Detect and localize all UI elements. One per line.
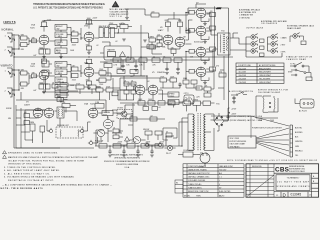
signal wire to phase inverter [118,33,148,38]
inputs label [2,21,16,32]
svg-text:MASTER VOL: MASTER VOL [99,25,110,28]
screen resistor V10 [206,67,215,71]
svg-text:.1: .1 [147,43,148,45]
svg-text:RED-VIO/WHT: RED-VIO/WHT [259,72,272,74]
svg-text:470: 470 [171,47,174,49]
svg-text:12AT7: 12AT7 [24,103,31,106]
svg-text:V1B: V1B [84,26,89,28]
svg-text:COMPOSITE PCB P/N: COMPOSITE PCB P/N [188,166,207,168]
vibrato channel long wire to mixer [111,76,147,100]
coupling caps to power tubes [185,20,192,44]
cathode network V2B [86,77,92,87]
reverb cables [47,111,91,131]
svg-text:200-210V: 200-210V [239,75,247,77]
svg-text:C 1: C 1 [219,177,222,179]
export plug connector [295,99,314,113]
notes list [1,151,113,191]
tremolo lower chain wires [112,99,180,140]
bright switch normal [55,25,67,31]
rail decoupling R102 [139,58,147,67]
screen resistor V8 [206,26,215,30]
svg-text:RED/BLU: RED/BLU [295,150,303,152]
svg-text:A GROUND SWITCH: A GROUND SWITCH [229,90,254,93]
svg-text:SWITCH: SWITCH [110,16,123,18]
reverb mix resistors [94,69,111,86]
output transformer T50 [218,31,231,55]
svg-text:.047: .047 [33,90,36,92]
svg-text:COILS AND CHOKES: COILS AND CHOKES [188,179,206,182]
screen resistor box top [151,11,159,17]
svg-text:470: 470 [216,66,219,68]
ground cathode V1B [87,52,91,54]
rev cells left of parts table [175,180,183,193]
svg-text:V2A: V2A [31,62,36,65]
svg-text:TUBES 7025 ALL: TUBES 7025 ALL [188,183,202,186]
PI labels extra [162,37,219,99]
PS filter cap 4 [150,146,154,157]
svg-text:C STANDBY SW: C STANDBY SW [239,14,253,17]
heading output jacks [246,27,264,30]
svg-text:6. VOLTAGES SHOULD BE READING: 6. VOLTAGES SHOULD BE READING ±20% WITH … [4,176,75,179]
svg-text:TREM: TREM [29,122,35,124]
speaker jack 2A [251,41,264,50]
rail boxes right mid [163,56,182,74]
svg-text:R1: R1 [176,182,178,184]
svg-text:YEL-VIO/WHT: YEL-VIO/WHT [259,79,271,81]
svg-text:.01: .01 [131,80,133,82]
svg-text:3. TONES ON THE CONTROLS INDIC: 3. TONES ON THE CONTROLS INDICATED. [4,166,56,169]
trem rail extra [160,76,182,88]
svg-text:FULLERTON CALIF: FULLERTON CALIF [289,170,305,173]
svg-text:LEAD AND FUNC: LEAD AND FUNC [219,165,234,168]
svg-text:220: 220 [151,11,154,13]
reverb recovery V4B [103,117,115,133]
cathode network V1A [39,45,50,56]
master volume sliders [94,25,118,38]
svg-text:.01: .01 [113,127,115,129]
svg-text:CR SW: CR SW [117,108,123,110]
dropping resistor PS1 [99,144,107,148]
svg-text:FENDER MUSICAL INSTRUMENTS: FENDER MUSICAL INSTRUMENTS [111,153,143,156]
ground marks mid [122,39,147,42]
B+ output arrows [228,108,237,115]
svg-text:IN LAST POSITION. PUSH IN FOR: IN LAST POSITION. PUSH IN FOR FULL SOUND… [8,159,85,162]
svg-text:TO P.T.: TO P.T. [290,63,296,65]
volume pot normal [49,30,67,41]
svg-text:CAPACITORS, PLATED: CAPACITORS, PLATED [188,168,208,171]
svg-text:+230V: +230V [145,142,151,144]
vibrato mix caps [108,127,123,142]
bright switch vibrato [55,62,67,68]
svg-text:470: 470 [210,11,213,13]
svg-text:+420V: +420V [131,142,137,144]
external speaker jack diagram [290,33,306,45]
heading export version [258,89,289,93]
svg-text:4. ALL CAPACITORS AT LEAST 400: 4. ALL CAPACITORS AT LEAST 400V RATED. [4,169,60,172]
reverb mixer extra boxes [55,86,118,100]
svg-text:470: 470 [219,71,222,73]
input jack J3 [5,68,16,77]
svg-text:GRN/YEL: GRN/YEL [295,141,303,143]
speed pot [158,92,179,98]
tremolo oscillator caps [120,78,160,100]
PI extra caps [157,34,163,46]
svg-text:ORN-VIO/WHT: ORN-VIO/WHT [259,75,272,77]
title block frame [246,164,319,197]
speaker jack 2B [271,41,286,47]
volume pot vibrato [49,67,67,77]
svg-text:10M: 10M [137,89,141,91]
svg-text:TUBE SOCKETS: TUBE SOCKETS [188,187,202,189]
svg-text:820: 820 [86,44,89,46]
svg-text:OUTPUT JACKS: OUTPUT JACKS [246,27,264,30]
PS riser wires [96,118,182,146]
svg-text:47: 47 [166,131,168,133]
pilot lamp [164,145,175,154]
bass pot vibrato [55,92,67,100]
revision table [246,164,274,197]
footswitch warning triangle [112,133,130,145]
svg-text:POWER SWITCH CIRCUIT EXPORT: POWER SWITCH CIRCUIT EXPORT [252,128,283,130]
svg-text:RECEPTACLE VOLTAGE AT INPUT.: RECEPTACLE VOLTAGE AT INPUT. [8,179,54,182]
screen resistor V7 [206,11,215,17]
ground bass pot [59,57,63,59]
plate load V2B [85,59,93,66]
svg-text:CAPS ALL CERAMIC DISC: CAPS ALL CERAMIC DISC [188,176,210,179]
6L6GC label [194,42,203,44]
svg-text:MASTER: MASTER [108,49,116,52]
vibrato mixer drop wires [112,60,128,96]
svg-text:VIB SW: VIB SW [143,129,149,131]
mixer resistors below master [100,62,145,78]
svg-text:U.S. PATENTS 2817708 3288904 2: U.S. PATENTS 2817708 3288904 2973681 AND… [33,7,103,10]
CBS logo [275,165,306,173]
screen distribution wires [218,56,226,100]
svg-text:NORM: NORM [6,108,12,110]
plate resistor V1A [40,20,48,31]
svg-text:.1: .1 [112,90,113,92]
rca plug left [48,128,53,133]
svg-text:.022: .022 [120,23,123,25]
svg-text:YEL: YEL [295,155,298,157]
screen rail wire [214,6,222,66]
ground bass vibrato [59,100,63,102]
feedback line vertical [196,8,229,120]
svg-text:5. ALL RESISTORS 1/2 WATT 5%.: 5. ALL RESISTORS 1/2 WATT 5%. [4,172,50,175]
voltage table [236,63,284,84]
svg-text:3 SPK: 3 SPK [281,51,287,53]
svg-text:MODEL: MODEL [184,195,190,197]
PS filter cap 3 [136,146,140,157]
grid resistors vibrato channel [12,69,33,90]
filter cap rail 2 [134,60,138,72]
cathode network V1B [86,42,92,52]
svg-text:MASTER VOLUME PUSH-PULL SWITCH: MASTER VOLUME PUSH-PULL SWITCH OPERATES … [8,156,99,159]
speaker jack 3A [251,48,264,57]
PS filter cap 1 [108,146,112,157]
svg-text:BLK/RED: BLK/RED [295,132,303,134]
grid resistor V9 [186,50,196,54]
svg-text:115V / 230V: 115V / 230V [230,138,240,140]
grid resistor V10 [186,52,196,74]
plate resistor V2A [42,59,47,67]
svg-text:V1A: V1A [31,24,36,27]
tremolo tube V5 12AX7A [135,71,165,95]
PI plate resistors [165,12,183,34]
svg-text:3 MEG: 3 MEG [169,96,175,98]
svg-text:+460V: +460V [216,8,222,10]
rectifier diodes bridge [211,108,230,150]
terminal strip [290,125,293,157]
svg-text:3.3M: 3.3M [60,82,64,84]
title box [274,173,319,197]
AC plug [197,153,210,169]
intensity pot [168,100,183,108]
phase inverter V6 12AT7 [158,27,185,47]
svg-text:REAR OF AMP: REAR OF AMP [287,27,302,30]
svg-text:100 WATT TWIN AMP: 100 WATT TWIN AMP [277,181,310,184]
svg-text:BRN-VIO/WHT: BRN-VIO/WHT [259,68,272,70]
svg-text:RESISTORS COMP 1/2W: RESISTORS COMP 1/2W [188,191,209,193]
wire fan to terminal strip [211,116,289,156]
svg-text:100-120V: 100-120V [239,68,247,70]
top grid wire staircase [125,8,196,17]
svg-text:SW: SW [57,29,60,31]
svg-text:1/1: 1/1 [309,194,311,196]
svg-text:CHASSIS REAR: CHASSIS REAR [286,58,307,61]
reverb return wire [16,92,135,113]
V3 cathode boxes [16,105,60,148]
power supply dropping chain [95,145,182,147]
reverb driver V3 12AT7 [24,101,54,118]
norm vib wire labels [6,108,12,120]
heading internal spk jack [261,20,288,25]
svg-text:.001: .001 [157,34,160,36]
svg-text:HTRS: HTRS [193,99,199,101]
dropping resistor PS3 [127,144,135,148]
rail decoupling R101 [126,58,134,67]
svg-text:VERSIONS OF THIS MODEL.: VERSIONS OF THIS MODEL. [8,164,42,166]
svg-text:1 MEG: 1 MEG [57,36,63,38]
svg-text:1 MAIN: 1 MAIN [281,36,288,39]
optocoupler [184,93,194,104]
input jack J1 [5,33,16,42]
svg-text:.02: .02 [115,41,117,43]
reverb area wires dense [16,108,46,148]
PS filter cap 2 [122,146,126,157]
parts table [183,164,244,198]
svg-text:D GROUND: D GROUND [239,17,251,19]
svg-text:EXPORT VERSIONS: EXPORT VERSIONS [230,141,247,143]
svg-text:+440V: +440V [117,142,123,144]
reverb output mixer boxes [60,82,101,94]
svg-text:TWIN: TWIN [196,195,201,197]
speaker jack 1A [251,34,264,43]
mid bottom wire row [120,114,165,133]
svg-text:1500: 1500 [39,47,43,49]
dropping resistor PS4 [141,144,149,148]
svg-text:COUNTRY USE: COUNTRY USE [238,65,252,67]
svg-text:+215V: +215V [159,142,165,144]
speaker jack 1B [271,34,287,40]
svg-text:V4A: V4A [84,102,89,105]
grid resistor V8 [186,13,196,33]
svg-text:1 MEG: 1 MEG [57,73,63,75]
svg-text:!: ! [115,3,116,7]
svg-text:NORMAL: NORMAL [2,29,15,32]
triode V1B 7025 [81,26,94,43]
svg-text:100-240VAC 50-60HZ: 100-240VAC 50-60HZ [258,91,281,94]
svg-text:1500: 1500 [39,82,43,84]
ground cathode V2A [42,92,46,94]
svg-text:FULLERTON, CALIFORNIA: FULLERTON, CALIFORNIA [116,163,139,166]
svg-text:NOTE: TWIN REVERB AA270: NOTE: TWIN REVERB AA270 [1,187,44,190]
svg-text:AA270: AA270 [219,194,224,197]
svg-text:.02: .02 [158,107,160,109]
svg-text:110-120V: 110-120V [239,72,247,74]
svg-text:CAPS ALL ELECTROLYTIC: CAPS ALL ELECTROLYTIC [188,172,211,175]
svg-text:2 (FROM SPEAKER) JACK NO. 2 US: 2 (FROM SPEAKER) JACK NO. 2 USE [228,119,263,122]
svg-text:.047: .047 [130,76,133,78]
svg-text:T50 0457: T50 0457 [219,169,226,171]
svg-text:(THE MUSICAL INSTRUMENTS): (THE MUSICAL INSTRUMENTS) [114,157,140,160]
svg-text:.02: .02 [96,45,98,47]
svg-text:+210V: +210V [46,20,52,22]
svg-text:U.S.A.: U.S.A. [124,166,130,169]
svg-text:6L6GC(2): 6L6GC(2) [194,42,203,44]
rail decoupling R103 [152,58,160,67]
svg-text:.02: .02 [96,80,98,82]
bass pot normal [55,48,67,57]
speaker jack 3B [271,48,286,54]
cathode network V2A [39,80,50,91]
svg-text:.047: .047 [72,65,75,67]
vibrato footswitch cluster [129,129,162,146]
reverb recovery V4A 7025 [84,102,98,118]
coupling caps vibrato [67,64,81,81]
svg-text:+470V: +470V [231,108,237,110]
svg-text:FUSE 4A SB: FUSE 4A SB [183,149,194,152]
svg-text:.02: .02 [147,81,149,83]
triode V2A 7025 [30,62,49,80]
svg-text:DIVISION OF COLUMBIA BROADCAST: DIVISION OF COLUMBIA BROADCASTING SYSTEM… [104,160,151,163]
note text top [33,3,105,9]
svg-text:ONLY (SEE CHART: ONLY (SEE CHART [230,143,247,146]
svg-text:12AT7: 12AT7 [158,29,165,32]
rail decoupling R100 [113,58,121,67]
ground switch diagram [231,92,247,104]
input jack J2 [5,47,16,56]
tone stack block V2 [42,59,100,92]
svg-text:013045: 013045 [291,193,302,197]
fender address block [104,153,151,169]
output tube cathode ties [201,18,209,84]
reverb aux box 2 [57,96,68,102]
heading standby switch [286,55,313,60]
master volume assembly box [100,42,131,60]
export switch small diagram [290,63,312,80]
tremolo footswitch transistor [117,108,133,119]
svg-text:OPTO: OPTO [184,93,190,95]
PI tail resistors [168,45,180,56]
dropping resistor PS2 [113,144,121,148]
export note box [228,136,256,148]
power tube V9 6L6GC [196,47,206,58]
svg-text:230-240V: 230-240V [239,82,247,84]
svg-text:REVERB UNIT: REVERB UNIT [57,125,70,127]
treble pot normal [55,40,67,48]
grid resistor V7 [186,11,196,15]
svg-text:.047: .047 [33,55,36,57]
standby switch diagram [288,62,309,73]
left ground bus wire [14,36,94,148]
svg-text:ON CHASSIS: ON CHASSIS [261,22,278,25]
grid stopper V1A [29,37,37,42]
B+ chain labels [97,142,165,144]
dropping resistor PS5 [155,144,163,148]
export transformer primaries [256,96,278,122]
mid column wire x141 [141,25,160,62]
power tube V8 6L6GC [196,26,206,37]
svg-text:A INTERNAL SPK JACK: A INTERNAL SPK JACK [239,9,261,12]
plate load V1B [85,18,93,29]
svg-text:+465V: +465V [97,142,103,144]
svg-text:THIS PAGE): THIS PAGE) [230,145,240,148]
power switch heading [252,128,283,130]
slope resistor top row [109,23,132,33]
svg-text:L: L [219,180,220,182]
warning triangle master volume [110,1,130,18]
svg-text:BLK/YEL: BLK/YEL [295,127,302,129]
lamp area wires [163,128,177,140]
legend list top right [239,9,261,20]
grid stopper V2A [29,72,37,77]
svg-text:VIBRATO: VIBRATO [1,65,13,68]
power transformer T55 [188,103,220,151]
svg-text:R ALL NOTED: R ALL NOTED [219,190,231,193]
PI input resistors [149,36,163,54]
rca plug right [79,128,84,133]
plate wires to OPT [206,13,217,72]
filter cap rail 1 [121,60,125,72]
left area extra labels [33,18,149,92]
ground cathode V2B [87,87,91,89]
svg-text:NOTE: VOLTAGES READ TO GND ALL: NOTE: VOLTAGES READ TO GND ALL ±20% JCT … [227,159,317,162]
vibrato label [1,65,13,68]
terminal strip wire labels [295,127,303,157]
reverb tank dashed box [56,125,83,138]
treble pot vibrato [55,77,67,83]
input jack J4 [5,88,16,97]
grid resistors normal channel [12,34,33,50]
power tube V7 6L6GC [196,2,206,18]
transformer primary wires [179,118,188,146]
screen resistor V9 [206,47,215,51]
svg-text:820: 820 [86,79,89,81]
bias right boxes [202,69,214,97]
fuse box [178,149,197,157]
note lines from speaker [228,115,263,122]
plate supply rail top [44,21,130,24]
footswitch circle [93,129,108,142]
ground top staircase [125,18,129,20]
reverb driver transformer [54,107,67,118]
footswitch rca jacks [88,137,98,145]
svg-text:12: 12 [276,195,278,197]
svg-text:.02: .02 [150,115,152,117]
heater wiring row above transformer [180,99,215,111]
svg-text:REVISIONS: REVISIONS [252,166,262,168]
